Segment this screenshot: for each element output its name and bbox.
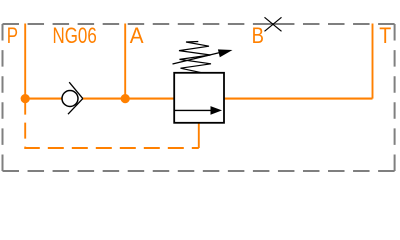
svg-text:NG06: NG06 [53, 24, 97, 49]
port A line [124, 24, 126, 99]
wire relief valve outlet to T [224, 98, 373, 100]
check valve V1 [62, 82, 83, 114]
svg-text:B: B [252, 25, 264, 49]
svg-text:P: P [7, 24, 18, 49]
pilot drain dashed line [25, 99, 199, 148]
relief valve flow arrow [175, 109, 213, 111]
node A junction [121, 94, 130, 103]
plugged port X at B [265, 17, 282, 31]
border segment through X [265, 23, 284, 25]
svg-text:T: T [379, 24, 391, 48]
port T line [372, 24, 374, 99]
spring adjustment arrow [173, 53, 221, 65]
enclosure dashed border [3, 24, 395, 171]
relief valve spring [179, 42, 211, 73]
svg-text:A: A [130, 23, 145, 48]
port P line [24, 24, 26, 99]
relief valve U1 body [174, 73, 224, 123]
wire P junction to check valve [25, 98, 62, 100]
relief valve drain stub [198, 123, 200, 149]
node P junction [21, 94, 30, 103]
wire check valve to relief valve inlet [83, 98, 175, 100]
